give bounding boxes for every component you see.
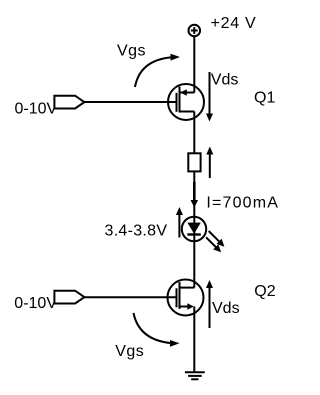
svg-text:Vds: Vds [212,300,240,317]
svg-text:0-10V: 0-10V [15,101,58,118]
Vgs arrow (bottom) [134,313,180,347]
current arrow (up, beside resistor) [206,147,213,179]
input flag (bottom) [54,291,84,304]
svg-text:3.4-3.8V: 3.4-3.8V [105,223,168,240]
LED [182,217,206,241]
svg-text:I=700mA: I=700mA [206,194,278,211]
Vds arrow (Q1) [206,72,213,122]
current direction arrow (down, into LED) [191,182,199,208]
svg-text:Vds: Vds [211,72,239,89]
power terminal +24V [189,25,201,37]
svg-text:Vgs: Vgs [115,343,144,360]
wire: resistor to LED [193,171,195,217]
svg-text:Vgs: Vgs [117,43,146,60]
input flag (top) [54,96,84,109]
wire: LED to Q2 drain [193,241,195,288]
svg-text:0-10V: 0-10V [14,295,57,312]
wire: Q2 source to ground [193,307,195,372]
Vds arrow (Q2) [206,280,213,328]
svg-text:Q1: Q1 [254,89,275,106]
Vgs arrow (top) [135,54,180,87]
LED emission arrows [206,231,224,252]
resistor [188,153,200,171]
LED voltage arrow (up) [176,207,183,238]
wire: flag to Q1 gate [84,101,176,103]
wire: Q1 source to resistor [193,112,195,154]
svg-text:Q2: Q2 [254,283,275,300]
transistor Q2 [168,280,204,316]
transistor Q1 [168,84,204,120]
wire: flag to Q2 gate [84,296,176,298]
wire: supply to Q1 drain [193,36,195,92]
svg-text:+24 V: +24 V [211,15,257,32]
ground [185,372,205,379]
